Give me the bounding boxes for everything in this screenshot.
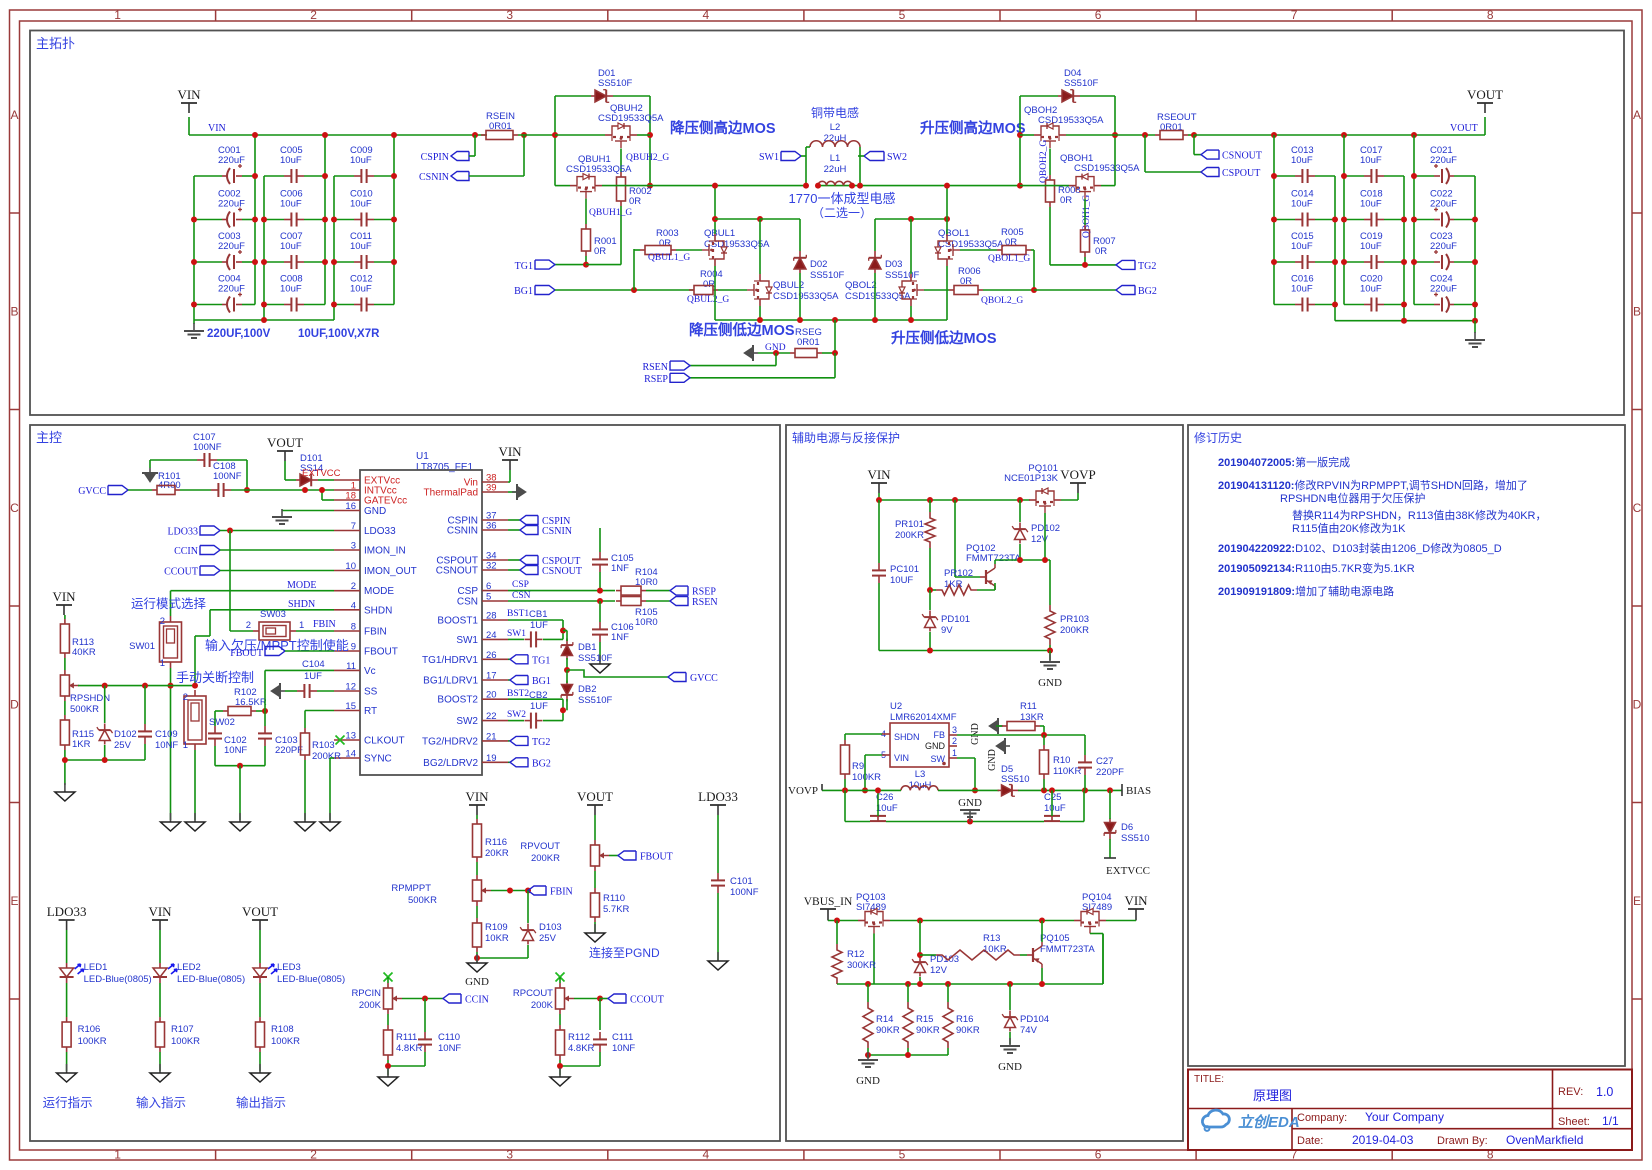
- zener PD102: [1012, 500, 1060, 560]
- svg-text:PD101: PD101: [941, 614, 970, 625]
- svg-text:辅助电源与反接保护: 辅助电源与反接保护: [792, 430, 900, 445]
- switch SW01: [129, 616, 181, 669]
- svg-text:R112: R112: [568, 1032, 590, 1043]
- svg-text:5.7KR: 5.7KR: [603, 904, 630, 915]
- svg-text:CSD19533Q5A: CSD19533Q5A: [773, 291, 839, 302]
- port CSPOUT: [1145, 135, 1260, 179]
- svg-text:6: 6: [1095, 1148, 1102, 1162]
- port FBIN mppt: [528, 886, 573, 898]
- svg-text:L2: L2: [830, 122, 841, 133]
- ground flag top left: [142, 460, 158, 482]
- svg-text:1: 1: [952, 748, 957, 758]
- ground C101: [708, 952, 728, 970]
- capacitor C017: [1344, 145, 1404, 183]
- revision line 2: [1218, 478, 1528, 492]
- port RSEN chip: [670, 597, 718, 609]
- ground input bank: [184, 320, 204, 338]
- svg-text:GND: GND: [364, 506, 386, 517]
- svg-text:QBUH2_G: QBUH2_G: [626, 153, 669, 163]
- label boost low side MOS: [891, 329, 997, 347]
- svg-text:DB2: DB2: [578, 684, 596, 695]
- title block grid: [1188, 1070, 1632, 1151]
- svg-text:3: 3: [506, 1148, 513, 1162]
- resistor R005: [960, 227, 1034, 290]
- svg-text:4.8KR: 4.8KR: [568, 1043, 595, 1054]
- svg-text:GATEVcc: GATEVcc: [364, 496, 407, 507]
- port TG1 chip: [508, 655, 550, 667]
- svg-text:CSD19533Q5A: CSD19533Q5A: [598, 113, 664, 124]
- svg-text:R116: R116: [485, 837, 507, 848]
- svg-text:B: B: [10, 304, 18, 318]
- svg-text:GVCC: GVCC: [690, 673, 718, 684]
- svg-text:GND: GND: [958, 797, 982, 809]
- svg-text:LED-Blue(0805): LED-Blue(0805): [177, 974, 245, 985]
- svg-text:QBUL1: QBUL1: [704, 228, 735, 239]
- svg-text:LT8705_FE1: LT8705_FE1: [416, 462, 474, 473]
- resistor RSEOUT: [1115, 112, 1197, 140]
- svg-text:1: 1: [114, 1148, 121, 1162]
- svg-text:10uF: 10uF: [1291, 284, 1313, 295]
- svg-text:R10: R10: [1053, 755, 1070, 766]
- wire VIN rail: [189, 117, 487, 135]
- ground arrow x305: [295, 813, 315, 831]
- capacitor C002: [194, 189, 255, 228]
- svg-text:Company:: Company:: [1297, 1112, 1347, 1124]
- capacitor C007: [264, 231, 325, 269]
- resistor R11: [996, 701, 1044, 735]
- svg-text:10uF: 10uF: [1044, 803, 1066, 814]
- power flag VOUT fb: [577, 789, 613, 815]
- resistor R002: [617, 149, 652, 265]
- svg-text:100KR: 100KR: [171, 1036, 200, 1047]
- svg-text:25V: 25V: [114, 740, 132, 751]
- svg-text:10R0: 10R0: [635, 617, 658, 628]
- resistor R104: [616, 567, 670, 595]
- svg-text:7: 7: [1291, 8, 1298, 22]
- svg-text:R16: R16: [956, 1014, 973, 1025]
- svg-text:SHDN: SHDN: [894, 732, 920, 742]
- svg-text:13: 13: [345, 731, 356, 742]
- ground mppt: [465, 954, 489, 988]
- power flag VIN led: [148, 904, 172, 930]
- power flag VOUT led: [242, 904, 278, 930]
- svg-text:200KR: 200KR: [531, 853, 560, 864]
- svg-text:0R: 0R: [1060, 195, 1072, 206]
- svg-text:1NF: 1NF: [611, 563, 629, 574]
- resistor R008: [1046, 149, 1081, 265]
- svg-text:PC101: PC101: [890, 564, 919, 575]
- svg-text:QBOH1_G: QBOH1_G: [1082, 195, 1092, 238]
- zener PD104: [1002, 984, 1049, 1044]
- capacitor C001: [194, 145, 255, 184]
- ground LED1 led: [57, 1064, 77, 1082]
- svg-text:300KR: 300KR: [847, 960, 876, 971]
- svg-text:R110: R110: [603, 893, 625, 904]
- svg-text:201905092134:R110由5.7KR变为5.1KR: 201905092134:R110由5.7KR变为5.1KR: [1218, 561, 1415, 575]
- ground flag near RSEG: [744, 343, 790, 361]
- svg-text:10uF: 10uF: [280, 241, 302, 252]
- svg-text:SW01: SW01: [129, 641, 155, 652]
- resistor R004: [689, 269, 747, 295]
- label 输出指示: [236, 1095, 286, 1110]
- logo lceda: [1202, 1110, 1299, 1131]
- svg-text:4: 4: [703, 1148, 710, 1162]
- svg-text:FBIN: FBIN: [313, 619, 336, 630]
- svg-text:R12: R12: [847, 949, 864, 960]
- net label FBIN chip: [313, 619, 336, 630]
- svg-text:TG2: TG2: [532, 737, 550, 748]
- mosfet QBUL1: [702, 228, 770, 266]
- svg-text:10uF: 10uF: [350, 284, 372, 295]
- capacitor C26: [870, 787, 898, 821]
- svg-text:FMMT723TA: FMMT723TA: [1040, 944, 1095, 955]
- svg-text:22uH: 22uH: [824, 164, 847, 175]
- capacitor C25: [1044, 790, 1066, 821]
- resistor R107: [156, 1017, 201, 1071]
- port CCOUT bottom: [608, 994, 664, 1006]
- label buck low side MOS: [689, 321, 795, 339]
- svg-text:TG1/HDRV1: TG1/HDRV1: [422, 655, 478, 666]
- svg-text:1NF: 1NF: [611, 632, 629, 643]
- wire VOUT rail: [1194, 117, 1485, 138]
- svg-text:26: 26: [486, 650, 497, 661]
- svg-text:替换R114为RPSHDN，R113值由38K修改为40KR: 替换R114为RPSHDN，R113值由38K修改为40KR，: [1292, 508, 1547, 522]
- capacitor C103: [258, 726, 303, 766]
- zener D103: [520, 891, 562, 959]
- svg-text:SS510F: SS510F: [598, 78, 633, 89]
- net label MODE: [287, 580, 316, 591]
- wire RPCOUT wiper: [574, 996, 608, 1031]
- diode DB1: [561, 631, 612, 671]
- svg-text:FMMT723TA: FMMT723TA: [966, 553, 1021, 564]
- svg-text:201904072005:第一版完成: 201904072005:第一版完成: [1218, 455, 1350, 469]
- ground vbus right: [998, 1038, 1022, 1073]
- svg-text:B: B: [1633, 304, 1641, 318]
- svg-text:10uF: 10uF: [280, 199, 302, 210]
- svg-text:VIN: VIN: [177, 87, 201, 102]
- svg-text:100NF: 100NF: [730, 887, 759, 898]
- wire RSEN: [690, 353, 776, 366]
- label 1770 inductor note: [789, 191, 896, 206]
- svg-text:12V: 12V: [1031, 534, 1049, 545]
- net label QBUL1_G: [648, 253, 690, 263]
- revision line 2b: [1280, 491, 1425, 505]
- capacitor CB2: [508, 690, 563, 729]
- diode D101: [285, 453, 334, 486]
- wire D5 right: [1018, 787, 1122, 793]
- net label QBOH1_G: [1082, 195, 1092, 238]
- mosfet QBUH1: [555, 154, 650, 199]
- resistor R13 zig: [936, 933, 1027, 960]
- wire capacitor bank input bottom: [194, 317, 334, 323]
- power flag LDO33: [698, 789, 738, 815]
- power flag VIN vbus: [1106, 893, 1148, 921]
- svg-text:VOUT: VOUT: [1450, 123, 1478, 134]
- wire RPCIN wiper: [402, 996, 443, 1031]
- svg-text:QBOL2: QBOL2: [845, 280, 877, 291]
- resistor R115: [60, 701, 94, 750]
- svg-text:16: 16: [345, 501, 356, 512]
- svg-text:PR101: PR101: [895, 519, 924, 530]
- svg-text:0R: 0R: [659, 238, 671, 249]
- svg-text:QBUH1_G: QBUH1_G: [589, 208, 632, 218]
- svg-text:GND: GND: [987, 749, 998, 771]
- svg-text:QBOL1: QBOL1: [938, 228, 970, 239]
- svg-text:TITLE:: TITLE:: [1194, 1074, 1224, 1085]
- potentiometer RPSHDN: [60, 658, 110, 715]
- net label BST1: [507, 609, 529, 619]
- svg-text:BOOST1: BOOST1: [437, 616, 478, 627]
- svg-text:FBOUT: FBOUT: [364, 647, 398, 658]
- svg-text:10uF: 10uF: [1360, 241, 1382, 252]
- resistor R113: [60, 615, 96, 658]
- svg-text:CSNOUT: CSNOUT: [542, 566, 582, 577]
- svg-text:36: 36: [486, 521, 497, 532]
- port SW2: [858, 152, 907, 164]
- capacitor C106: [592, 622, 634, 662]
- resistor R12 zig: [832, 944, 876, 984]
- net label SW1 boot: [507, 629, 526, 639]
- svg-text:OvenMarkfield: OvenMarkfield: [1506, 1133, 1583, 1147]
- capacitor C008: [264, 274, 325, 312]
- svg-text:VIN: VIN: [894, 753, 909, 763]
- svg-text:FBOUT: FBOUT: [230, 648, 263, 659]
- svg-text:TG1: TG1: [532, 655, 550, 666]
- ground R115: [55, 783, 75, 801]
- svg-text:5: 5: [899, 1148, 906, 1162]
- port RSEP: [644, 373, 690, 385]
- svg-text:32: 32: [486, 561, 497, 572]
- svg-text:Vc: Vc: [364, 666, 376, 677]
- resistor R105: [616, 597, 670, 629]
- net label SHDN: [288, 599, 315, 610]
- capacitor C012: [334, 274, 394, 312]
- svg-text:SS510F: SS510F: [578, 695, 613, 706]
- svg-text:R111: R111: [396, 1032, 417, 1043]
- svg-text:R107: R107: [171, 1024, 194, 1035]
- svg-text:10UF: 10UF: [890, 575, 913, 586]
- power flag VIN U1: [498, 444, 522, 482]
- svg-text:24: 24: [486, 630, 497, 641]
- label 铜带电感: [811, 105, 859, 120]
- wire TG2 net: [1050, 262, 1116, 268]
- svg-text:8: 8: [1487, 8, 1494, 22]
- svg-text:SW2: SW2: [456, 716, 478, 727]
- svg-text:1.0: 1.0: [1596, 1085, 1613, 1099]
- resistor R16 zig: [943, 984, 980, 1055]
- wire D03 top: [875, 216, 950, 251]
- wire gate bus: [837, 934, 1103, 988]
- svg-text:20KR: 20KR: [485, 848, 509, 859]
- wire GVCC net: [564, 667, 668, 677]
- wire vbus rail mid: [890, 918, 1074, 924]
- svg-text:RPCOUT: RPCOUT: [513, 988, 553, 999]
- label 输入指示: [136, 1095, 186, 1110]
- svg-text:200K: 200K: [531, 1000, 554, 1011]
- port BG2: [1116, 286, 1157, 298]
- net label QBUL2_G: [687, 295, 729, 305]
- mosfet QBOH1: [1020, 153, 1140, 199]
- wire SW03 to FBIN: [296, 630, 334, 632]
- label 输入欠压MPPT控制使能: [205, 638, 349, 653]
- svg-text:SS510: SS510: [1001, 774, 1030, 785]
- svg-text:L3: L3: [915, 769, 926, 780]
- svg-text:REV:: REV:: [1558, 1086, 1583, 1098]
- svg-text:GND: GND: [925, 741, 946, 751]
- svg-text:LDO33: LDO33: [47, 904, 87, 919]
- svg-text:MODE: MODE: [364, 586, 394, 597]
- capacitor C107: [193, 432, 222, 467]
- svg-text:FB: FB: [933, 730, 945, 740]
- svg-text:U2: U2: [890, 701, 902, 712]
- svg-text:LED2: LED2: [177, 962, 201, 973]
- svg-text:Drawn By:: Drawn By:: [1437, 1135, 1488, 1147]
- capacitor C024: [1414, 274, 1475, 313]
- wire LDO33 to SW03: [230, 531, 253, 632]
- svg-text:PR103: PR103: [1060, 614, 1089, 625]
- ground vbus left: [856, 1052, 880, 1087]
- wire capacitor bank input verticals: [191, 132, 397, 320]
- capacitor C019: [1344, 231, 1404, 269]
- net label VIN: [208, 123, 226, 134]
- ground aux top: [1038, 654, 1062, 689]
- svg-text:立创EDA: 立创EDA: [1238, 1113, 1300, 1131]
- svg-text:连接至PGND: 连接至PGND: [589, 945, 660, 960]
- svg-text:ThermalPad: ThermalPad: [424, 488, 478, 499]
- svg-text:CSD19533Q5A: CSD19533Q5A: [1038, 115, 1104, 126]
- svg-text:CCOUT: CCOUT: [164, 567, 198, 578]
- wire BOOST1: [508, 620, 566, 639]
- svg-text:10: 10: [345, 561, 356, 572]
- revision line 1: [1218, 455, 1350, 469]
- diode D5: [998, 764, 1030, 796]
- svg-text:R103: R103: [312, 740, 335, 751]
- capacitor C005: [264, 145, 325, 183]
- svg-text:VIN: VIN: [1124, 893, 1148, 908]
- ground U1 GND pin: [272, 509, 334, 524]
- svg-text:FBOUT: FBOUT: [640, 852, 673, 863]
- svg-text:CSNIN: CSNIN: [542, 526, 572, 537]
- power flag VBUS_IN: [804, 896, 853, 921]
- resistor R10: [1040, 735, 1082, 790]
- svg-text:DB1: DB1: [578, 642, 596, 653]
- svg-text:Sheet:: Sheet:: [1558, 1116, 1590, 1128]
- svg-text:NCE01P13K: NCE01P13K: [1004, 473, 1059, 484]
- svg-text:200KR: 200KR: [312, 751, 341, 762]
- svg-text:19: 19: [486, 753, 497, 764]
- svg-text:降压侧高边MOS: 降压侧高边MOS: [670, 119, 776, 137]
- net label BST2: [507, 689, 529, 699]
- svg-text:CSNIN: CSNIN: [447, 526, 478, 537]
- svg-text:（二选一）: （二选一）: [812, 206, 872, 220]
- svg-text:10uF: 10uF: [350, 155, 372, 166]
- svg-text:1: 1: [160, 658, 165, 669]
- port TG2 chip: [508, 736, 550, 748]
- svg-text:CSP: CSP: [457, 586, 478, 597]
- svg-text:2: 2: [183, 692, 188, 703]
- date text: [1297, 1133, 1583, 1147]
- svg-text:10uF: 10uF: [350, 199, 372, 210]
- net label EXTVCC red: [302, 468, 341, 479]
- svg-text:VOVP: VOVP: [788, 785, 818, 797]
- svg-text:VIN: VIN: [867, 467, 891, 482]
- net label QBOL1_G: [988, 254, 1030, 264]
- svg-text:15: 15: [345, 701, 356, 712]
- wire SW01 down: [168, 668, 174, 820]
- svg-text:7: 7: [351, 521, 356, 532]
- svg-text:铜带电感: 铜带电感: [811, 105, 859, 120]
- svg-text:PD104: PD104: [1020, 1014, 1049, 1025]
- svg-text:0R01: 0R01: [1160, 122, 1183, 133]
- svg-text:10uF: 10uF: [876, 803, 898, 814]
- switch SW02: [183, 690, 235, 751]
- ic U2 LMR62014XMF: [881, 701, 957, 767]
- wire BOOST2: [508, 699, 566, 720]
- company text: [1297, 1110, 1444, 1124]
- wire aux bottom rail: [845, 790, 1084, 824]
- svg-text:升压侧高边MOS: 升压侧高边MOS: [920, 119, 1026, 137]
- wire CSN net: [508, 591, 615, 622]
- ground RPCIN: [378, 1068, 398, 1086]
- no connect RPCOUT: [556, 973, 565, 982]
- resistor R109: [473, 906, 509, 952]
- capacitor C108: [211, 461, 242, 497]
- svg-text:TG2/HDRV2: TG2/HDRV2: [422, 736, 478, 747]
- port CCOUT: [164, 566, 334, 578]
- svg-text:LDO33: LDO33: [364, 526, 396, 537]
- capacitor C111: [593, 1032, 635, 1066]
- capacitor CB1: [508, 609, 563, 647]
- svg-text:0R: 0R: [629, 196, 641, 207]
- svg-text:1: 1: [114, 8, 121, 22]
- svg-text:11: 11: [346, 661, 356, 672]
- svg-text:QBUL1_G: QBUL1_G: [648, 253, 690, 263]
- svg-text:A: A: [10, 108, 18, 122]
- svg-text:0R: 0R: [1095, 246, 1107, 257]
- svg-text:RPVOUT: RPVOUT: [520, 841, 560, 852]
- panel box revision history 修订历史: [1188, 425, 1625, 1066]
- svg-text:主控: 主控: [36, 430, 62, 445]
- svg-text:C104: C104: [302, 659, 325, 670]
- capacitor C27: [1078, 755, 1124, 790]
- capacitor C004: [194, 274, 255, 313]
- potentiometer RPVOUT: [520, 815, 609, 871]
- svg-text:90KR: 90KR: [876, 1025, 900, 1036]
- diode D03: [869, 251, 920, 281]
- svg-text:C27: C27: [1096, 756, 1113, 767]
- svg-text:RPCIN: RPCIN: [351, 988, 381, 999]
- svg-text:RT: RT: [364, 706, 377, 717]
- svg-text:CSD19533Q5A: CSD19533Q5A: [1074, 163, 1140, 174]
- wire CSP net: [508, 580, 615, 594]
- wire GVCC to pins: [180, 487, 334, 500]
- wire R115 bottom: [62, 750, 145, 785]
- svg-text:SS510F: SS510F: [1064, 78, 1099, 89]
- transistor PQ102: [966, 543, 1021, 590]
- svg-text:VOUT: VOUT: [577, 789, 613, 804]
- resistor RSEG: [790, 320, 838, 358]
- svg-text:R109: R109: [485, 922, 508, 933]
- svg-text:22uH: 22uH: [824, 133, 847, 144]
- svg-text:1770一体成型电感: 1770一体成型电感: [789, 191, 896, 206]
- resistor R110: [591, 871, 630, 932]
- svg-text:LMR62014XMF: LMR62014XMF: [890, 712, 957, 723]
- port CSPOUT chip: [508, 556, 580, 568]
- svg-text:14: 14: [345, 749, 356, 760]
- panel box aux power 辅助电源与反接保护: [786, 425, 1183, 1141]
- capacitor C021: [1414, 145, 1475, 184]
- svg-text:SW02: SW02: [209, 717, 235, 728]
